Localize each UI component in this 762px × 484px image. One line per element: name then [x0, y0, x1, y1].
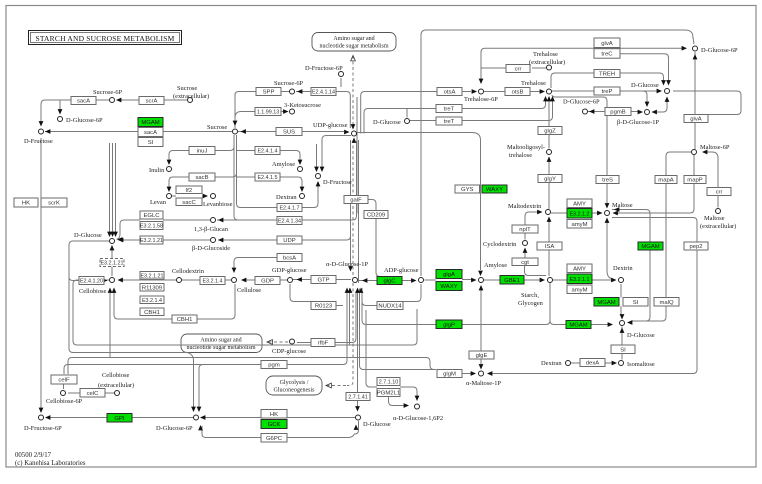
- svg-text:E3.2.1.2: E3.2.1.2: [569, 211, 589, 217]
- arrowhead: [611, 278, 616, 283]
- gene box E3.2.1.2: [567, 209, 592, 219]
- gene box SUS: [276, 128, 302, 136]
- arrowhead: [550, 96, 555, 101]
- gene box CBH1: [140, 308, 164, 316]
- arrowhead: [605, 218, 610, 223]
- wire: [525, 266, 547, 276]
- gene box SI: [611, 345, 635, 354]
- svg-text:glgC: glgC: [383, 279, 396, 285]
- wire: [46, 417, 193, 419]
- svg-text:α-Maltose-1P: α-Maltose-1P: [466, 380, 501, 387]
- gene box pgm: [261, 361, 287, 369]
- svg-text:UDP: UDP: [283, 238, 296, 244]
- node Maltose: [605, 211, 610, 216]
- gene box E3.2.1.4: [140, 296, 164, 304]
- gene box SI: [138, 138, 163, 147]
- wire: [68, 392, 114, 394]
- wire: [620, 91, 647, 105]
- gene box E3.2.1.21: [140, 236, 163, 244]
- svg-text:ADP-glucose: ADP-glucose: [384, 267, 419, 274]
- gene box rfbF: [311, 339, 335, 347]
- node Amylose: [298, 167, 303, 172]
- arrowhead: [113, 232, 118, 237]
- svg-text:WAXY: WAXY: [486, 187, 503, 193]
- wire: [410, 100, 553, 121]
- arrowhead: [638, 110, 643, 115]
- arrowhead: [359, 288, 364, 293]
- arrowhead: [471, 278, 476, 283]
- arrowhead: [547, 157, 552, 162]
- svg-text:CBH1: CBH1: [144, 310, 160, 316]
- svg-text:E2.4.1.14: E2.4.1.14: [312, 90, 335, 96]
- arrowhead: [108, 288, 113, 293]
- svg-text:nplT: nplT: [519, 227, 531, 233]
- arrowhead: [472, 89, 477, 94]
- wire: [362, 284, 421, 306]
- title box: [29, 31, 182, 45]
- gene box CBH1: [172, 315, 197, 323]
- node Isomaltose: [619, 361, 624, 366]
- svg-text:Cellulose: Cellulose: [237, 287, 261, 294]
- wire: [234, 258, 277, 272]
- svg-text:Trehalose: Trehalose: [521, 80, 546, 87]
- gene box E2.4.1.4: [255, 147, 280, 155]
- wire: [64, 365, 203, 375]
- gene box MGAM: [594, 298, 619, 307]
- arrowhead: [118, 238, 123, 243]
- node D-Glucose: [665, 89, 670, 94]
- svg-text:D-Fructose: D-Fructose: [24, 138, 53, 145]
- wire: [40, 138, 42, 408]
- arrowhead: [58, 109, 63, 114]
- svg-text:E3.2.1.1: E3.2.1.1: [569, 277, 589, 283]
- svg-text:TREH: TREH: [599, 72, 615, 78]
- wire: [364, 100, 546, 134]
- wire: [485, 47, 685, 49]
- wire: [462, 373, 474, 375]
- gene box treP: [594, 87, 620, 95]
- svg-text:GBE1: GBE1: [504, 278, 520, 284]
- svg-text:GDP-glucose: GDP-glucose: [272, 267, 307, 274]
- arrowhead: [218, 238, 223, 243]
- wire: [114, 289, 172, 320]
- svg-text:α-D-Glucose-1P: α-D-Glucose-1P: [326, 261, 368, 268]
- wire: [552, 90, 660, 92]
- svg-text:(extracellular): (extracellular): [529, 59, 565, 66]
- svg-text:(c) Kanehisa Laboratories: (c) Kanehisa Laboratories: [15, 460, 86, 467]
- node UDP-glucose: [352, 131, 357, 136]
- wire: [481, 67, 506, 69]
- wire: [358, 140, 360, 283]
- svg-text:AMY: AMY: [573, 266, 586, 272]
- arrowhead: [45, 415, 50, 420]
- node Sucrose-6P: [110, 98, 115, 103]
- gene box GTP: [311, 276, 336, 284]
- arrowhead: [487, 371, 492, 376]
- arrowhead: [589, 109, 594, 114]
- svg-text:D-Glucose: D-Glucose: [373, 119, 401, 126]
- wire: [59, 100, 61, 113]
- arrowhead: [351, 124, 356, 129]
- svg-text:GYS: GYS: [461, 187, 474, 193]
- arrowhead: [661, 80, 666, 85]
- svg-text:SI: SI: [620, 347, 626, 353]
- svg-text:Maltodextrin: Maltodextrin: [508, 203, 542, 210]
- svg-text:mapA: mapA: [658, 178, 673, 184]
- svg-text:GDP: GDP: [261, 279, 274, 285]
- wire: [551, 212, 598, 214]
- arrowhead: [198, 425, 203, 430]
- arrowhead: [682, 46, 687, 51]
- wire: [665, 184, 667, 298]
- svg-text:NUDX14: NUDX14: [378, 304, 402, 310]
- svg-text:E3.2.1.21: E3.2.1.21: [100, 261, 123, 267]
- node Cyclodextrin: [523, 241, 528, 246]
- wire: [350, 140, 352, 270]
- gene box scrA: [139, 97, 164, 105]
- svg-text:nucleotide sugar metabolism: nucleotide sugar metabolism: [320, 44, 389, 50]
- arrowhead: [116, 98, 121, 103]
- gene box TREH: [594, 70, 620, 78]
- wire: [218, 236, 351, 240]
- svg-text:Levanbiose: Levanbiose: [203, 201, 233, 208]
- wire: [182, 279, 231, 281]
- wire: [694, 52, 696, 149]
- svg-text:Amino sugar and: Amino sugar and: [333, 36, 374, 42]
- node D-Glucose-6P: [58, 117, 63, 122]
- arrowhead: [597, 211, 602, 216]
- wire: [237, 176, 255, 178]
- wire: [588, 111, 640, 113]
- arrowhead: [543, 96, 548, 101]
- arrowhead: [117, 237, 122, 242]
- svg-text:Starch,: Starch,: [521, 292, 539, 299]
- svg-text:CDP-glucose: CDP-glucose: [272, 348, 306, 355]
- arrowhead: [110, 245, 115, 250]
- arrowhead: [608, 322, 613, 327]
- gene box SPP: [256, 88, 281, 96]
- arrowhead: [191, 407, 196, 412]
- arrowhead: [666, 80, 671, 85]
- svg-text:scrK: scrK: [48, 201, 60, 207]
- gene box E3.2.1.58: [140, 222, 163, 230]
- wire: [72, 358, 434, 370]
- svg-text:Cellodextrin: Cellodextrin: [172, 268, 205, 275]
- arrowhead: [348, 266, 353, 271]
- svg-text:sacB: sacB: [195, 175, 208, 181]
- wire: [237, 150, 255, 152]
- node ADP-glucose: [419, 278, 424, 283]
- svg-text:sacA: sacA: [144, 130, 157, 136]
- wire: [119, 279, 176, 281]
- wire: [280, 177, 302, 187]
- svg-text:Dextran: Dextran: [276, 194, 297, 201]
- gene box 2.7.1.41: [346, 393, 370, 401]
- svg-text:3-Ketosucrose: 3-Ketosucrose: [284, 102, 321, 109]
- arrowhead: [652, 110, 657, 115]
- node Sucrose (extracellular): [188, 98, 193, 103]
- wire: [362, 288, 436, 325]
- svg-text:sacC: sacC: [182, 200, 196, 206]
- svg-text:malQ: malQ: [659, 300, 673, 306]
- svg-text:β-D-Glucose-1P: β-D-Glucose-1P: [617, 119, 659, 126]
- gene box EGLC: [140, 211, 163, 219]
- svg-text:sacA: sacA: [77, 99, 90, 105]
- gene box glgM: [437, 370, 462, 378]
- wire: [111, 246, 113, 277]
- node beta-D-Glucoside: [211, 238, 216, 243]
- arrowhead: [118, 278, 123, 283]
- svg-text:D-Glucose: D-Glucose: [631, 82, 659, 89]
- svg-text:pgm: pgm: [268, 363, 280, 369]
- wire: [68, 358, 72, 375]
- gene box galF: [344, 196, 368, 204]
- gene box sacA: [71, 97, 96, 105]
- svg-text:Cellobiose: Cellobiose: [102, 372, 129, 379]
- wire: [237, 135, 278, 208]
- wire: [69, 241, 194, 411]
- wire: [199, 365, 203, 412]
- arrowhead: [283, 109, 288, 114]
- gene box E2.4.1.5: [255, 173, 280, 181]
- arrowhead: [362, 278, 367, 283]
- gene box dexA: [580, 359, 605, 367]
- svg-text:glgP: glgP: [443, 322, 455, 328]
- wire: [234, 135, 238, 220]
- wire: [360, 289, 437, 370]
- svg-text:(extracellular): (extracellular): [98, 382, 134, 389]
- svg-text:treT: treT: [444, 107, 455, 113]
- wire: [335, 292, 356, 343]
- svg-text:dexA: dexA: [586, 361, 599, 367]
- node Dextrin: [619, 278, 624, 283]
- svg-text:inuJ: inuJ: [197, 149, 208, 155]
- svg-text:SPP: SPP: [263, 90, 275, 96]
- wire: [297, 342, 311, 344]
- svg-text:1.1.99.13: 1.1.99.13: [257, 110, 279, 116]
- wire: [357, 133, 481, 271]
- svg-text:pgmB: pgmB: [610, 110, 625, 116]
- wire: [41, 100, 109, 125]
- node D-Fructose: [316, 174, 321, 179]
- arrowhead: [203, 194, 208, 199]
- node D-Fructose: [39, 129, 44, 134]
- arrowhead: [39, 121, 44, 126]
- arrowhead: [241, 278, 246, 283]
- wire: [117, 99, 139, 101]
- arrowhead: [614, 207, 619, 212]
- svg-text:Amylose: Amylose: [272, 161, 295, 168]
- wire: [352, 56, 354, 125]
- svg-text:Isomaltose: Isomaltose: [627, 361, 655, 368]
- gene box crr: [707, 188, 731, 196]
- svg-text:D-Fructose-6P: D-Fructose-6P: [305, 65, 343, 72]
- arrowhead: [218, 218, 223, 223]
- arrowhead: [613, 211, 618, 216]
- arrowhead: [479, 79, 484, 84]
- svg-text:amyM: amyM: [571, 287, 587, 293]
- gene box MGAM: [638, 242, 663, 250]
- svg-text:D-Glucose-6P: D-Glucose-6P: [563, 99, 600, 106]
- node beta-D-Glucose-1P: [645, 110, 650, 115]
- gene box GYS: [455, 185, 480, 193]
- svg-text:β-D-Glucoside: β-D-Glucoside: [192, 245, 230, 252]
- svg-text:E3.2.1.21: E3.2.1.21: [140, 238, 163, 244]
- svg-text:Amino sugar and: Amino sugar and: [200, 338, 241, 344]
- gene box scrK: [41, 198, 67, 207]
- gene box G6PC: [261, 434, 287, 443]
- gene box otsB: [505, 88, 530, 96]
- pathway box: amino sugar top: [312, 33, 396, 52]
- svg-text:Cyclodextrin: Cyclodextrin: [483, 241, 517, 248]
- arrowhead: [620, 314, 625, 319]
- wire: [484, 279, 541, 281]
- arrowhead: [200, 415, 205, 420]
- svg-text:E2.4.1.5: E2.4.1.5: [257, 175, 277, 181]
- gene box WAXY: [436, 282, 462, 291]
- gene box HK: [261, 410, 287, 419]
- arrowhead: [605, 203, 610, 208]
- svg-text:MGAM: MGAM: [597, 300, 615, 306]
- svg-text:HK: HK: [22, 201, 30, 207]
- wire: [109, 289, 111, 358]
- gene box UDP: [277, 236, 302, 244]
- arrowhead: [241, 129, 246, 134]
- svg-text:treP: treP: [602, 89, 613, 95]
- node Trehalose-6P: [479, 89, 484, 94]
- svg-text:nucleotide sugar metabolism: nucleotide sugar metabolism: [187, 345, 256, 351]
- wire: [290, 284, 343, 306]
- gene box ISA: [537, 242, 562, 250]
- gene box 1.1.99.13: [255, 108, 281, 116]
- gene box R0123: [311, 302, 336, 310]
- svg-text:1,3-β-Glucan: 1,3-β-Glucan: [194, 226, 229, 233]
- arrowhead: [354, 425, 359, 430]
- arrowhead: [298, 160, 303, 165]
- svg-text:Glycogen: Glycogen: [518, 300, 544, 307]
- arrowhead: [45, 129, 50, 134]
- wire: [349, 289, 351, 346]
- wire: [163, 239, 210, 241]
- svg-text:glvA: glvA: [601, 41, 613, 47]
- arrowhead: [665, 97, 670, 102]
- wire: [462, 283, 550, 325]
- wire: [607, 223, 611, 279]
- node D-Glucose: [110, 239, 115, 244]
- svg-text:D-Glucose-6P: D-Glucose-6P: [156, 425, 193, 432]
- gene box sacC: [176, 198, 202, 206]
- wire: [525, 212, 541, 240]
- svg-text:GTP: GTP: [317, 278, 329, 284]
- arrowhead: [612, 361, 617, 366]
- gene box E3.2.1.1: [567, 274, 592, 284]
- node Inulin: [167, 167, 172, 172]
- svg-text:ISA: ISA: [545, 244, 555, 250]
- wire: [316, 144, 318, 167]
- svg-text:amyM: amyM: [571, 222, 587, 228]
- gene box glvA: [594, 38, 620, 48]
- pathway box: glycolysis: [266, 376, 322, 395]
- wire: [553, 279, 612, 281]
- wire: [420, 35, 422, 276]
- arrowhead: [523, 248, 528, 253]
- svg-text:glgZ: glgZ: [544, 129, 556, 135]
- wire: [400, 387, 417, 399]
- node Sucrose-6P: [290, 89, 295, 94]
- wire: [164, 99, 187, 101]
- gene box cgt: [512, 258, 538, 266]
- arrowhead: [645, 102, 650, 107]
- wire: [235, 112, 286, 119]
- gene box E2.4.1.20: [79, 277, 104, 285]
- gene box glvA: [684, 115, 708, 123]
- svg-text:UDP-glucose: UDP-glucose: [313, 122, 348, 129]
- svg-text:Sucrose: Sucrose: [177, 85, 197, 92]
- gene box E2.4.1.14: [311, 88, 336, 96]
- wire: [652, 98, 667, 113]
- node D-Glucose-6P: [194, 415, 199, 420]
- gene box GPI: [107, 414, 132, 423]
- svg-text:treC: treC: [601, 52, 613, 58]
- wire: [666, 152, 691, 176]
- arrowhead: [471, 371, 476, 376]
- svg-text:otsB: otsB: [512, 90, 524, 96]
- wire: [280, 151, 300, 161]
- wire: [293, 279, 351, 281]
- wire: [110, 143, 116, 233]
- gene box SI: [623, 298, 648, 307]
- svg-text:D-Fructose-6P: D-Fructose-6P: [24, 425, 62, 432]
- wire: [484, 91, 540, 93]
- wire: [201, 417, 355, 419]
- node D-Glucose-6P: [583, 109, 588, 114]
- node 1,3-beta-Glucan: [211, 218, 216, 223]
- svg-text:Trehalose: Trehalose: [533, 51, 558, 58]
- gene box WAXY: [482, 185, 507, 193]
- wire: [356, 97, 358, 214]
- arrowhead: [320, 167, 325, 172]
- svg-text:R0123: R0123: [315, 304, 333, 310]
- node D-Glucose: [356, 415, 361, 420]
- gene box MGAM: [566, 321, 591, 329]
- svg-text:2.7.1.41: 2.7.1.41: [348, 395, 367, 401]
- gene box otsA: [437, 88, 462, 96]
- svg-text:mapP: mapP: [687, 178, 702, 184]
- gene box mapA: [655, 176, 677, 184]
- wire: [703, 152, 718, 208]
- svg-text:crr: crr: [716, 190, 723, 196]
- gene box glgC: [377, 277, 402, 285]
- arrowhead: [355, 406, 360, 411]
- svg-text:HK: HK: [270, 412, 278, 418]
- arrowhead: [693, 54, 698, 59]
- arrowhead: [355, 288, 360, 293]
- svg-text:Cellobiose: Cellobiose: [79, 288, 106, 295]
- wire: [340, 78, 342, 87]
- node Amylose: [479, 278, 484, 283]
- node Cellobiose: [110, 278, 115, 283]
- arrowhead: [351, 56, 356, 61]
- node Dextran: [566, 361, 571, 366]
- wire: [358, 280, 472, 281]
- node Trehalose: [547, 89, 552, 94]
- node CDP-glucose: [290, 339, 295, 344]
- gene box amyM: [567, 220, 592, 229]
- wire: [347, 140, 353, 386]
- wire: [389, 397, 408, 406]
- arrowhead: [102, 278, 107, 283]
- wire: [238, 131, 344, 133]
